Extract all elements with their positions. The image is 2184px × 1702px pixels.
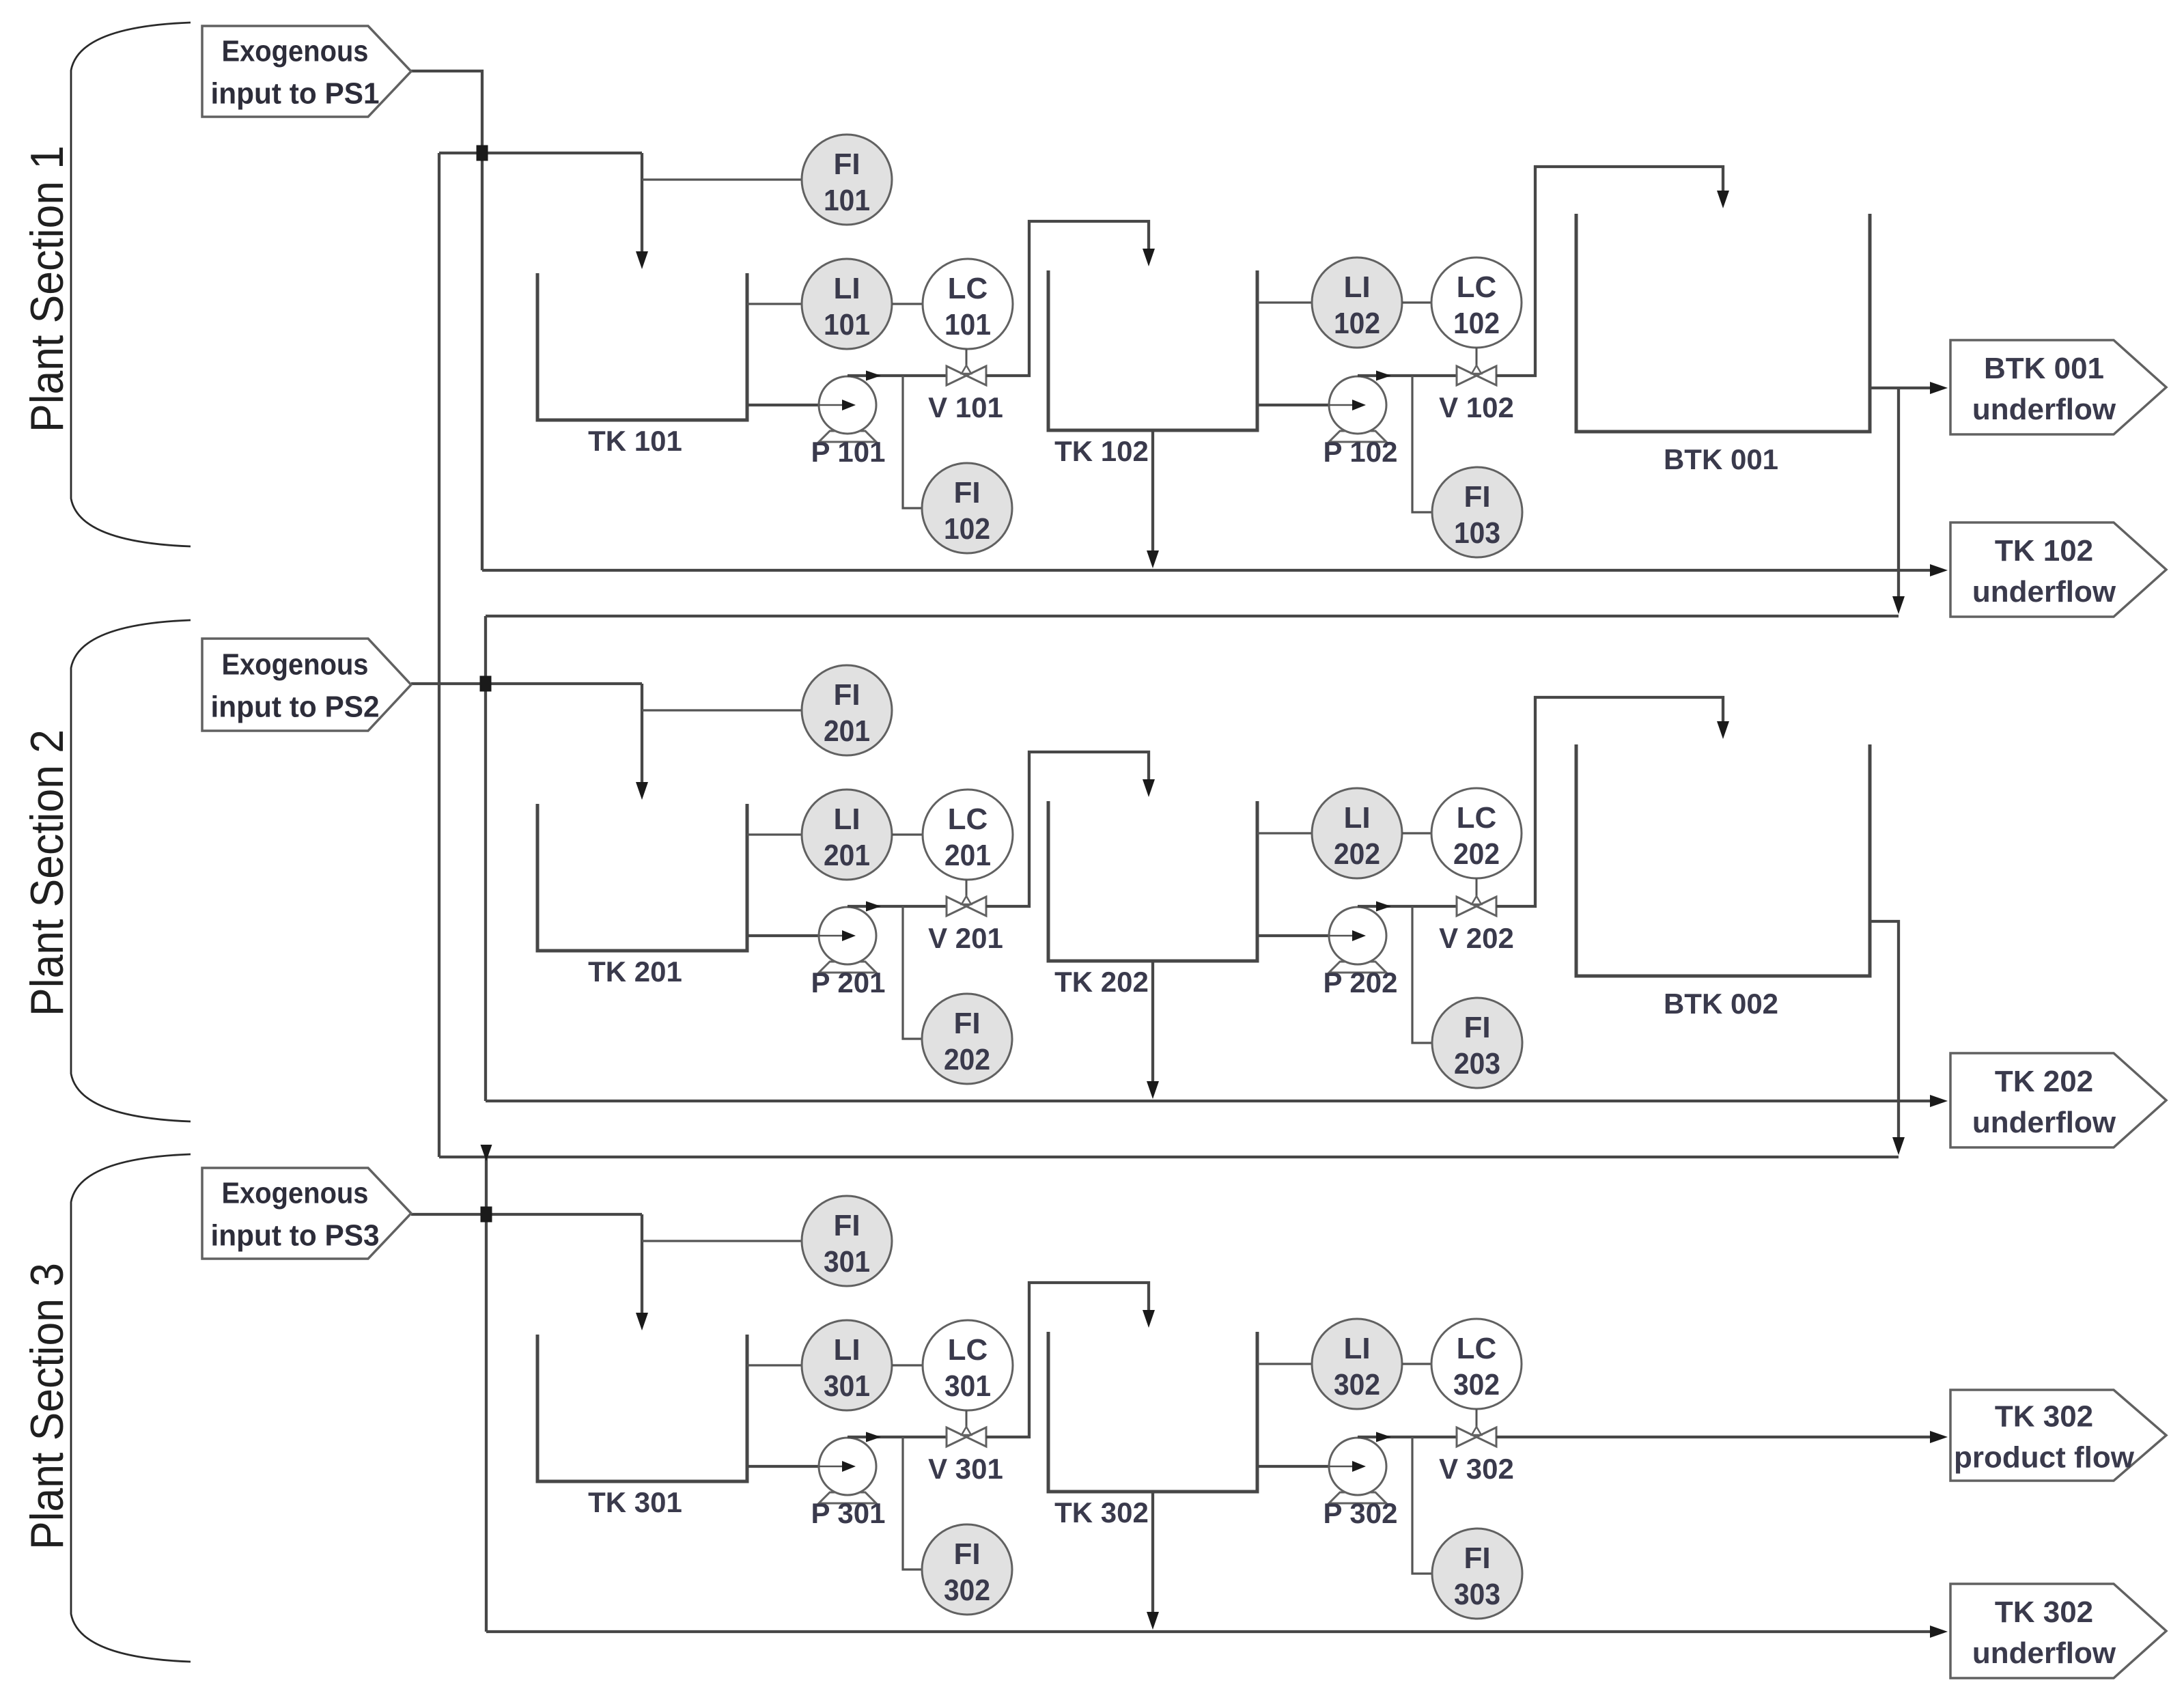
wire recycle R2 [439,1156,1899,1158]
svg-text:TK 302: TK 302 [1054,1496,1149,1529]
instrument FI 302 [922,1524,1012,1615]
svg-text:LC: LC [948,803,988,836]
svg-text:V 302: V 302 [1439,1453,1514,1485]
wire TK202-underflow header riser [484,684,487,1101]
svg-text:product flow: product flow [1954,1441,2135,1475]
svg-text:FI: FI [1464,1011,1490,1044]
svg-text:TK 302: TK 302 [1995,1400,2093,1434]
wire to FI 302 [903,1437,922,1570]
arrow into TK 302 underflow flag [1930,1626,1948,1638]
wire PS1 flag to junction [411,71,482,153]
arrow into TK 301 [636,1313,648,1330]
instrument FI 301 [802,1196,892,1286]
arrow into TK 302 [1143,1310,1155,1328]
valve V 301 [947,1410,986,1447]
svg-text:301: 301 [944,1369,991,1403]
wire to FI 101 [642,178,802,180]
svg-text:101: 101 [824,184,870,217]
label P 202 [1324,966,1398,999]
svg-text:201: 201 [944,839,991,872]
svg-text:101: 101 [944,308,991,341]
wire TK302-underflow header riser [485,1214,488,1632]
instrument LI 102 [1312,257,1402,348]
tank BTK 001 [1576,214,1870,432]
wire TK 101 outlet to P 101 [747,404,842,406]
pump P 202 [1329,907,1386,973]
arrow into BTK 002 [1717,721,1729,739]
wire BTK 001 recycle drop [1897,388,1900,604]
wire to FI 102 [903,376,922,508]
wire recycle line A to PS3 [438,153,440,1157]
wire to FI 202 [903,906,922,1039]
svg-text:103: 103 [1454,516,1500,550]
wire TK 101 to LI 101 [747,303,802,305]
wire LI 301 to LC 301 [892,1364,923,1366]
label V 101 [928,391,1003,423]
svg-text:Plant Section 2: Plant Section 2 [21,729,73,1016]
valve V 202 [1457,878,1496,916]
svg-text:V 201: V 201 [928,922,1003,954]
arrow BTK 002 recycle drop [1892,1137,1905,1155]
arrow on P 101 discharge [866,371,881,381]
instrument LI 201 [802,790,892,880]
pump P 301 [819,1438,876,1503]
label V 301 [928,1453,1003,1485]
label V 202 [1439,922,1514,954]
svg-text:underflow: underflow [1972,575,2116,609]
instrument LC 102 [1431,257,1522,348]
svg-text:301: 301 [824,1245,870,1279]
svg-text:202: 202 [1334,837,1380,871]
arrow on P 202 discharge [1376,902,1391,912]
pump P 102 [1329,376,1386,442]
label P 102 [1324,436,1398,468]
wire TK 102 underflow header [482,569,1944,572]
wire TK 102 to LI 102 [1257,301,1312,303]
arrow on P 102 discharge [1376,371,1391,381]
svg-text:FI: FI [1464,1541,1490,1575]
svg-text:TK 302: TK 302 [1995,1595,2093,1629]
arrow BTK 001 recycle drop [1892,596,1905,614]
label P 201 [811,966,886,999]
arrow TK 102 drain [1147,550,1159,568]
arrow TK 202 drain [1147,1081,1159,1099]
svg-text:P 301: P 301 [811,1497,886,1529]
svg-text:BTK 002: BTK 002 [1664,988,1778,1020]
wire LI 201 to LC 201 [892,833,923,835]
wire TK 201 outlet to P 201 [747,934,842,937]
svg-text:input to PS1: input to PS1 [211,77,380,111]
svg-text:LI: LI [833,272,860,305]
wire to FI 303 [1412,1437,1432,1574]
wire BTK 002 underflow [1869,921,1899,1145]
svg-text:TK 102: TK 102 [1995,534,2093,568]
pump P 302 [1329,1438,1386,1503]
label V 302 [1439,1453,1514,1485]
wire TK 202 underflow header [486,1100,1944,1102]
svg-text:Plant Section 3: Plant Section 3 [21,1263,73,1550]
arrow into TK 202 [1143,779,1155,797]
wire feed header PS2 [411,682,642,685]
valve V 101 [947,349,986,385]
svg-text:302: 302 [1334,1368,1380,1401]
wire TK 302 underflow header [486,1630,1944,1633]
instrument FI 203 [1432,998,1522,1088]
instrument LI 301 [802,1320,892,1410]
svg-text:P 101: P 101 [811,436,886,468]
instrument FI 103 [1432,467,1522,557]
wire to FI 203 [1412,906,1432,1043]
tank TK 301 [537,1335,747,1481]
arrow into TK 101 [636,251,648,269]
valve V 102 [1457,348,1496,385]
wire TK 102 drain [1151,430,1154,558]
flag TK 102 underflow [1950,522,2166,617]
wire LI 202 to LC 202 [1402,832,1431,834]
instrument LI 202 [1312,788,1402,878]
svg-text:V 202: V 202 [1439,922,1514,954]
label TK 301 [588,1486,682,1518]
wire TK 102 outlet to P 102 [1257,404,1352,406]
svg-text:203: 203 [1454,1047,1500,1080]
svg-text:101: 101 [824,308,870,341]
svg-text:P 302: P 302 [1324,1497,1398,1529]
svg-text:LC: LC [1457,801,1497,835]
svg-text:301: 301 [824,1369,870,1403]
tank TK 102 [1048,270,1257,430]
tank TK 101 [537,273,747,420]
arrow into TK 302 product flag [1930,1431,1948,1443]
svg-text:Plant Section 1: Plant Section 1 [21,145,73,432]
junction recycle R2 to PS3 [481,1145,492,1161]
svg-text:FI: FI [953,1007,980,1040]
instrument FI 202 [922,994,1012,1084]
pump P 101 [819,376,876,442]
label P 302 [1324,1497,1398,1529]
svg-text:Exogenous: Exogenous [222,648,369,682]
wire V 202 to BTK 002 [1496,697,1723,906]
svg-text:201: 201 [824,714,870,748]
wire TK 101 inlet riser [641,153,643,260]
svg-text:underflow: underflow [1972,1636,2116,1670]
valve V 201 [947,880,986,916]
svg-text:102: 102 [944,512,990,546]
svg-text:201: 201 [824,839,870,872]
svg-text:underflow: underflow [1972,1106,2116,1139]
tank TK 202 [1048,801,1257,961]
junction J1 [477,145,488,161]
tank TK 201 [537,804,747,951]
svg-text:LI: LI [833,803,860,836]
svg-text:LI: LI [1343,1332,1370,1365]
wire V 101 to TK 102 [986,221,1149,376]
svg-text:102: 102 [1453,307,1500,340]
wire TK 202 to LI 202 [1257,832,1312,834]
svg-text:TK 102: TK 102 [1054,435,1149,467]
wire to FI 301 [642,1240,802,1242]
svg-text:P 201: P 201 [811,966,886,999]
plant section 3 brace [71,1154,191,1662]
svg-text:TK 202: TK 202 [1995,1065,2093,1098]
svg-text:TK 202: TK 202 [1054,966,1149,998]
wire recycle R1 riser to PS2 junction [484,616,487,684]
wire P 201 discharge [848,905,947,908]
label V 102 [1439,391,1514,423]
flag exogenous input to PS1 [202,26,411,117]
instrument LC 202 [1431,788,1522,878]
svg-text:LC: LC [948,1333,988,1367]
label TK 101 [588,425,682,457]
wire TK 201 inlet riser [641,684,643,791]
flag TK 302 underflow [1950,1584,2166,1678]
tank BTK 002 [1576,744,1870,976]
wire PS3 junction riser [485,1157,488,1214]
wire TK 202 outlet to P 202 [1257,934,1352,937]
wire BTK 001 underflow [1870,387,1944,389]
svg-text:302: 302 [1453,1368,1500,1401]
wire V 302 product line [1496,1436,1944,1438]
svg-text:LI: LI [833,1333,860,1367]
plant section 3 label [21,1263,73,1550]
instrument LC 201 [923,790,1013,880]
pump P 201 [819,907,876,973]
arrow on P 302 discharge [1376,1432,1391,1442]
svg-text:Exogenous: Exogenous [222,1177,369,1210]
flag TK 202 underflow [1950,1053,2166,1147]
wire to FI 103 [1412,376,1432,512]
svg-text:303: 303 [1454,1578,1500,1611]
arrow into BTK 001 underflow flag [1930,382,1948,394]
svg-text:TK 301: TK 301 [588,1486,682,1518]
svg-text:BTK 001: BTK 001 [1984,352,2104,385]
arrow into TK 102 underflow flag [1930,564,1948,576]
plant section 2 brace [71,620,191,1121]
instrument FI 303 [1432,1529,1522,1619]
label P 301 [811,1497,886,1529]
svg-text:FI: FI [1464,480,1490,514]
wire TK 202 drain [1151,961,1154,1089]
label V 201 [928,922,1003,954]
svg-text:underflow: underflow [1972,393,2116,426]
instrument LI 101 [802,259,892,349]
svg-text:FI: FI [833,148,860,181]
arrow into TK 102 [1143,249,1155,266]
svg-text:TK 101: TK 101 [588,425,682,457]
arrow into TK 202 underflow flag [1930,1095,1948,1107]
wire V 301 to TK 302 [986,1283,1149,1437]
label P 101 [811,436,886,468]
wire P 301 discharge [848,1436,947,1438]
wire TK102-underflow header riser [481,153,484,570]
wire P 302 discharge [1358,1436,1457,1438]
tank TK 302 [1048,1332,1257,1492]
wire feed header PS3 [411,1213,642,1216]
instrument LI 302 [1312,1319,1402,1409]
instrument LC 302 [1431,1319,1522,1409]
arrow into BTK 001 [1717,191,1729,208]
svg-text:input to PS3: input to PS3 [211,1219,380,1253]
wire recycle R1 [486,615,1899,617]
svg-text:LC: LC [1457,270,1497,304]
svg-text:P 202: P 202 [1324,966,1398,999]
label TK 201 [588,955,682,988]
wire TK 302 outlet to P 302 [1257,1465,1352,1468]
instrument FI 102 [922,463,1012,553]
wire TK 201 to LI 201 [747,833,802,835]
wire TK 301 outlet to P 301 [747,1465,842,1468]
svg-text:V 301: V 301 [928,1453,1003,1485]
wire V 102 to BTK 001 [1496,167,1723,376]
instrument LC 301 [923,1320,1013,1410]
junction J3 [481,1207,492,1223]
arrow on P 201 discharge [866,902,881,912]
wire P 102 discharge [1358,374,1457,377]
wire TK 302 drain [1151,1492,1154,1619]
svg-text:202: 202 [944,1043,990,1076]
flag TK 302 product flow [1950,1390,2166,1481]
label TK 102 [1054,435,1149,467]
svg-text:LC: LC [948,272,988,305]
arrow into TK 201 [636,782,648,800]
label TK 202 [1054,966,1149,998]
label BTK 001 [1664,443,1778,475]
wire LI 101 to LC 101 [892,303,923,305]
svg-text:V 101: V 101 [928,391,1003,423]
plant section 1 label [21,145,73,432]
svg-text:TK 201: TK 201 [588,955,682,988]
flag exogenous input to PS2 [202,639,411,731]
wire V 201 to TK 202 [986,752,1149,906]
svg-text:Exogenous: Exogenous [222,35,369,68]
junction J2 [480,676,492,692]
svg-text:LI: LI [1343,801,1370,835]
svg-text:LI: LI [1343,270,1370,304]
svg-text:input to PS2: input to PS2 [211,690,380,724]
wire TK 302 to LI 302 [1257,1363,1312,1365]
plant section 2 label [21,729,73,1016]
label BTK 002 [1664,988,1778,1020]
arrow on P 301 discharge [866,1432,881,1442]
wire P 101 discharge [848,374,947,377]
wire feed header PS1 [439,152,642,154]
svg-text:V 102: V 102 [1439,391,1514,423]
instrument LC 101 [923,259,1013,349]
wire LI 302 to LC 302 [1402,1363,1431,1365]
wire P 202 discharge [1358,905,1457,908]
flag exogenous input to PS3 [202,1168,411,1259]
svg-text:102: 102 [1334,307,1380,340]
svg-text:FI: FI [833,1209,860,1242]
svg-text:BTK 001: BTK 001 [1664,443,1778,475]
flag BTK 001 underflow [1950,340,2166,434]
valve V 302 [1457,1409,1496,1447]
label TK 302 [1054,1496,1149,1529]
svg-text:FI: FI [833,678,860,712]
svg-text:FI: FI [953,476,980,510]
svg-text:302: 302 [944,1574,990,1607]
wire LI 102 to LC 102 [1402,301,1431,303]
instrument FI 201 [802,665,892,755]
svg-text:P 102: P 102 [1324,436,1398,468]
svg-text:202: 202 [1453,837,1500,871]
plant section 1 brace [71,23,191,546]
wire to FI 201 [642,709,802,711]
wire TK 301 to LI 301 [747,1364,802,1366]
svg-text:LC: LC [1457,1332,1497,1365]
wire TK 301 inlet riser [641,1214,643,1322]
instrument FI 101 [802,135,892,225]
svg-text:FI: FI [953,1537,980,1571]
arrow TK 302 drain [1147,1612,1159,1630]
